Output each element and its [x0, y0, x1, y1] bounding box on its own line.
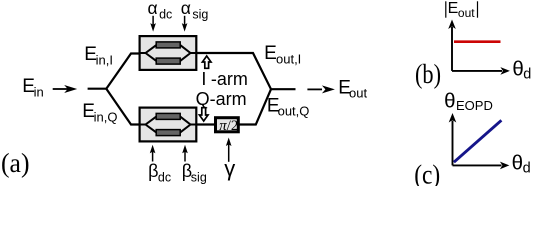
svg-text:α: α — [181, 0, 191, 18]
drive arrow alpha_sig — [182, 16, 188, 32]
plot c x label theta_d — [512, 152, 531, 177]
svg-text:β: β — [148, 161, 158, 181]
label alpha_sig — [181, 0, 209, 21]
panel label (a) — [1, 148, 30, 178]
label E_out,Q — [267, 95, 309, 118]
svg-text:sig: sig — [191, 171, 207, 185]
svg-text:Q-arm: Q-arm — [196, 89, 247, 109]
plot b red curve — [454, 40, 501, 43]
plot b y label |E_out| — [445, 0, 478, 20]
plot b x label theta_d — [512, 58, 531, 83]
svg-text:I: I — [201, 69, 206, 89]
panel label (b) — [415, 59, 441, 89]
svg-text:in: in — [34, 85, 44, 100]
label gamma — [224, 156, 235, 181]
label beta_dc — [148, 161, 171, 185]
label E_in,Q — [82, 101, 117, 124]
svg-text:out,Q: out,Q — [278, 104, 310, 119]
svg-text:dc: dc — [159, 7, 172, 21]
drive arrow beta_sig — [182, 145, 188, 162]
drive arrow gamma — [226, 138, 232, 162]
svg-text:EOPD: EOPD — [456, 98, 493, 113]
svg-text:in,I: in,I — [96, 53, 113, 68]
svg-text:out,I: out,I — [276, 52, 301, 67]
Q-arm tag arrow — [199, 108, 208, 121]
I-arm tag arrow — [202, 56, 211, 68]
label E_in — [22, 76, 43, 99]
wire input to splitter — [88, 88, 107, 90]
plot c x-axis — [453, 162, 510, 170]
MZM I waveguide — [139, 45, 198, 61]
svg-text:π/2: π/2 — [219, 118, 238, 134]
svg-text:θ: θ — [512, 152, 523, 175]
panel label (c) — [414, 160, 440, 190]
wire MZM Q to phase shifter — [197, 123, 214, 125]
drive arrow alpha_dc — [150, 16, 156, 32]
svg-text:dc: dc — [158, 171, 171, 185]
splitter node — [106, 54, 139, 125]
output arrow — [307, 85, 335, 93]
label Q-arm — [196, 89, 247, 109]
MZM Q box — [140, 108, 197, 142]
svg-text:out: out — [458, 6, 475, 20]
label E_out — [338, 77, 367, 100]
input arrow — [53, 85, 77, 93]
plot b y-axis — [448, 20, 456, 71]
label alpha_dc — [148, 0, 173, 21]
svg-text:α: α — [148, 0, 158, 18]
MZM Q electrode lower — [156, 130, 180, 136]
svg-text:(a): (a) — [1, 148, 30, 178]
wire Q-arm output — [239, 89, 271, 124]
svg-text:E: E — [448, 0, 459, 17]
svg-text:out: out — [349, 86, 367, 101]
plot c blue curve — [454, 120, 502, 162]
svg-text:(b): (b) — [415, 59, 441, 89]
wire I-arm output — [197, 53, 296, 89]
label E_in,I — [84, 44, 113, 67]
MZM Q waveguide — [139, 116, 198, 132]
label beta_sig — [182, 161, 207, 185]
svg-text:θ: θ — [512, 58, 523, 81]
plot c y-axis — [449, 113, 457, 165]
MZM Q electrode upper — [156, 113, 180, 119]
svg-text:(c): (c) — [414, 160, 440, 187]
svg-text:E: E — [264, 43, 277, 64]
svg-text:γ: γ — [224, 156, 235, 181]
svg-text:θ: θ — [444, 89, 455, 112]
svg-text:d: d — [523, 66, 531, 82]
label I-arm — [201, 69, 248, 89]
svg-text:sig: sig — [192, 7, 208, 21]
label E_out,I — [264, 43, 301, 66]
MZM I box — [140, 36, 197, 70]
plot b x-axis — [452, 67, 510, 75]
svg-text:-arm: -arm — [211, 69, 248, 89]
svg-text:in,Q: in,Q — [94, 109, 118, 124]
svg-text:d: d — [523, 161, 531, 177]
MZM I electrode lower — [156, 58, 180, 64]
phase shifter pi/2 box — [216, 118, 239, 134]
MZM I electrode upper — [156, 42, 180, 48]
drive arrow beta_dc — [150, 145, 156, 162]
plot c y label theta_EOPD — [444, 89, 493, 113]
